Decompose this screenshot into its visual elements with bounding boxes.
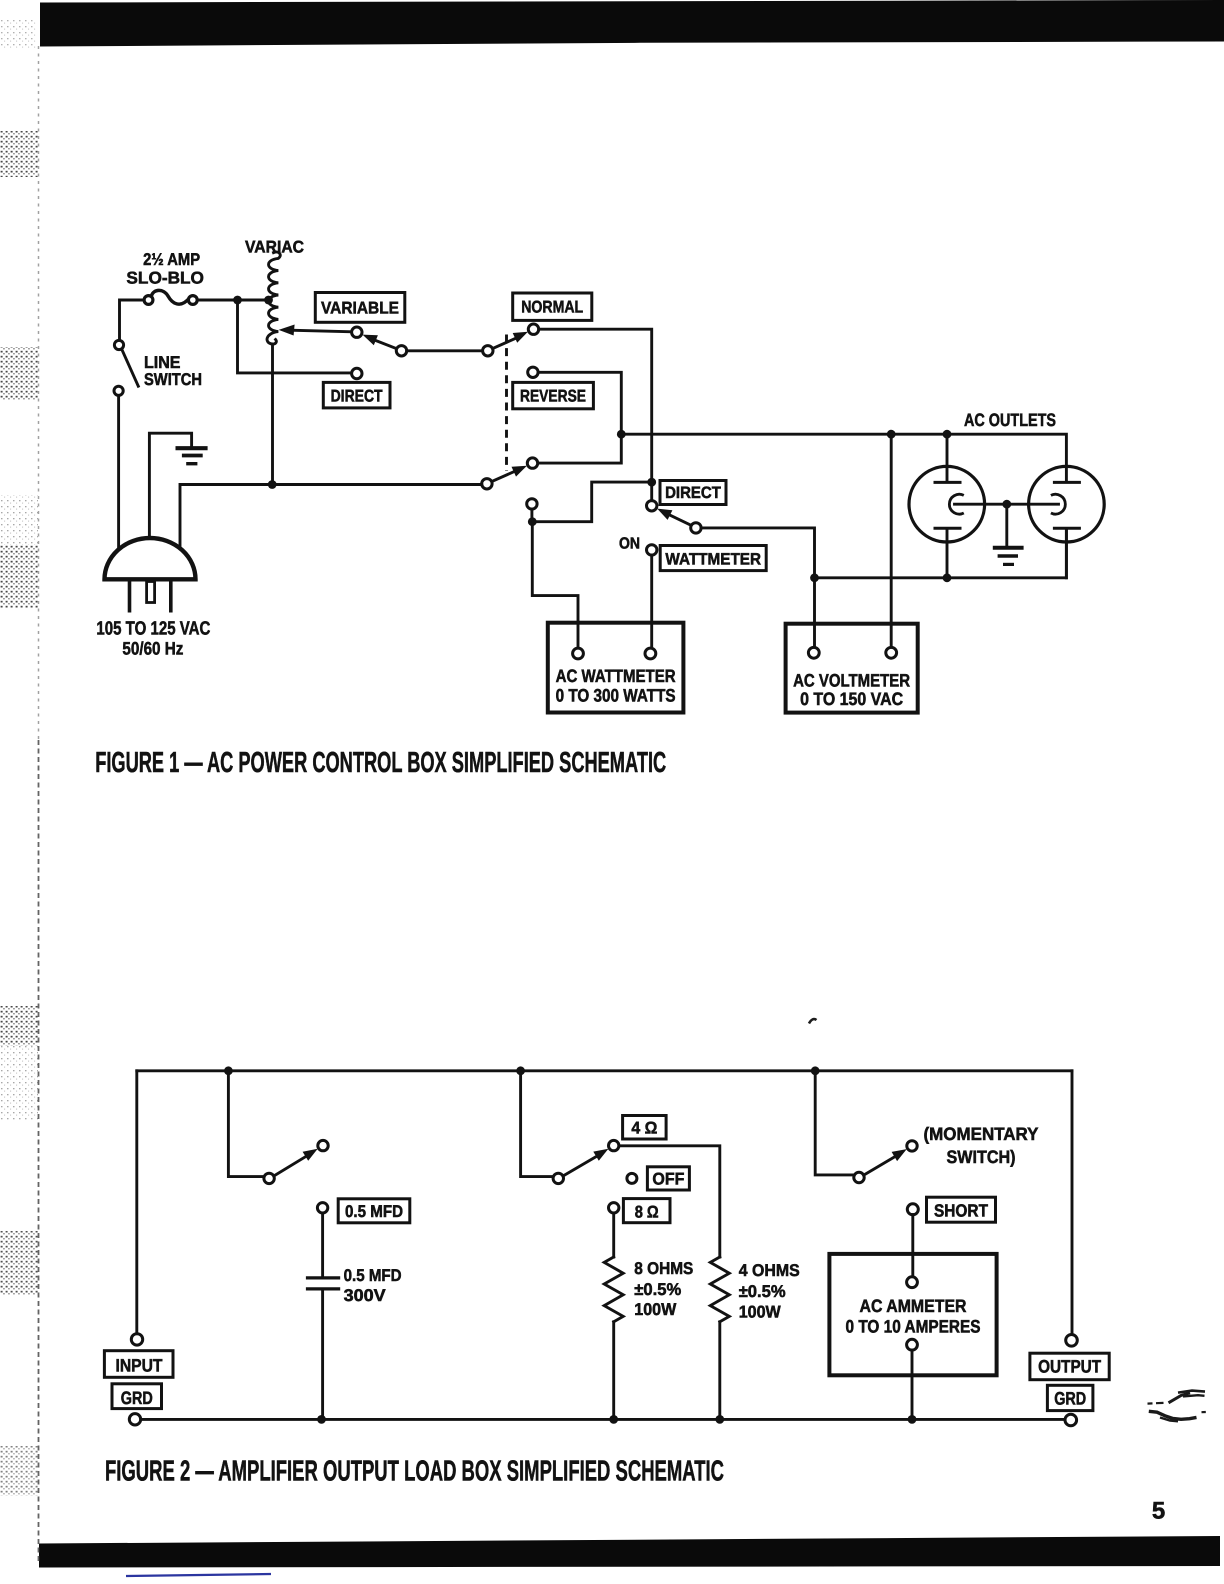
svg-text:100W: 100W: [634, 1300, 677, 1319]
svg-text:50/60 Hz: 50/60 Hz: [122, 638, 183, 658]
svg-text:INPUT: INPUT: [116, 1356, 163, 1376]
svg-text:GRD: GRD: [1054, 1389, 1086, 1409]
svg-text:OUTPUT: OUTPUT: [1038, 1357, 1101, 1377]
label 4 OHMS 0.5% 100W: [739, 1261, 800, 1322]
svg-text:4 OHMS: 4 OHMS: [739, 1261, 800, 1280]
junction dot capacitor bottom: [317, 1415, 326, 1424]
momentary contact circle: [907, 1141, 917, 1151]
svg-text:(MOMENTARY: (MOMENTARY: [924, 1124, 1039, 1144]
svg-text:100W: 100W: [739, 1303, 782, 1322]
wire: top bus: [137, 1069, 1072, 1072]
outlet J2 slot bars: [1053, 482, 1081, 528]
wire: input drop: [135, 1071, 138, 1334]
svg-text:8 OHMS: 8 OHMS: [634, 1259, 693, 1278]
junction dot outlet 1 bottom: [943, 573, 952, 582]
outlet J2 circle: [1029, 466, 1105, 542]
wire: ammeter bottom lead: [911, 1350, 914, 1419]
ON contact circle: [647, 545, 657, 555]
label box GRD left: [112, 1384, 162, 1409]
wire: variac bottom lead: [271, 345, 274, 485]
svg-text:OFF: OFF: [652, 1169, 684, 1188]
outlet J2 bottom lead: [1065, 530, 1068, 578]
AC voltmeter M2 terminals and label: [793, 647, 910, 708]
svg-text:AC WATTMETER: AC WATTMETER: [556, 666, 676, 686]
fuse F1 2.5A slo-blo: [144, 290, 197, 304]
momentary switch S4 feed wire: [815, 1071, 854, 1175]
ground symbol near plug: [176, 448, 208, 464]
switch S2 feed wire: [228, 1071, 264, 1177]
label box 4 ohm: [623, 1116, 667, 1140]
svg-text:SWITCH: SWITCH: [144, 370, 202, 389]
junction dot voltmeter tap: [887, 430, 896, 439]
lower selector pole circle: [482, 479, 492, 489]
wire: NORMAL contact down to direct node: [539, 329, 652, 477]
label box 8 ohm: [623, 1199, 670, 1223]
wire: neutral to voltmeter left terminal: [813, 578, 816, 647]
AC voltmeter M2 box outline: [786, 624, 918, 713]
junction dot switch 2 tap: [516, 1066, 525, 1075]
label box REVERSE: [513, 382, 594, 408]
AC ammeter M3 terminals and label: [846, 1277, 981, 1350]
SHORT contact circle: [907, 1204, 918, 1215]
wire: 8 ohm resistor bottom lead: [612, 1322, 615, 1420]
wire: 8 ohm resistor top lead: [612, 1213, 615, 1257]
svg-text:AC OUTLETS: AC OUTLETS: [964, 410, 1056, 430]
svg-text:FIGURE 2 — AMPLIFIER OUTPUT LO: FIGURE 2 — AMPLIFIER OUTPUT LOAD BOX SIM…: [105, 1456, 724, 1488]
svg-text:SWITCH): SWITCH): [947, 1147, 1016, 1167]
wire: ON contact to wattmeter right terminal: [650, 555, 653, 648]
stray ink tick above figure 2: [809, 1019, 817, 1023]
label box WATTMETER: [660, 546, 766, 571]
wire: capacitor bottom lead: [321, 1291, 324, 1420]
momentary switch pole circle: [854, 1172, 864, 1182]
wire: output drop: [1071, 1071, 1074, 1335]
wire: stub to outlet ground symbol: [1005, 504, 1008, 546]
svg-text:DIRECT: DIRECT: [665, 484, 721, 502]
svg-text:±0.5%: ±0.5%: [634, 1280, 681, 1299]
blue pen mark bottom left: [126, 1574, 271, 1576]
AC ammeter M3 box outline: [829, 1254, 996, 1375]
wire: outlet ground link: [955, 503, 1059, 506]
lower selector blade: [492, 469, 519, 481]
svg-text:FIGURE 1 — AC POWER CONTROL BO: FIGURE 1 — AC POWER CONTROL BOX SIMPLIFI…: [95, 747, 666, 779]
svg-text:±0.5%: ±0.5%: [739, 1282, 786, 1301]
label 8 OHMS 0.5% 100W: [634, 1259, 693, 1319]
pen scribble bottom right: [1148, 1391, 1206, 1422]
svg-text:ON: ON: [619, 536, 640, 553]
junction dot ammeter bottom: [908, 1415, 917, 1424]
svg-text:SLO-BLO: SLO-BLO: [126, 269, 204, 288]
svg-text:NORMAL: NORMAL: [521, 298, 583, 317]
svg-text:DIRECT: DIRECT: [331, 387, 384, 406]
label box GRD right: [1047, 1385, 1093, 1410]
outlet J1 bottom lead: [946, 530, 949, 578]
REVERSE contact circle: [528, 367, 538, 377]
wire: to wattmeter left terminal: [532, 522, 578, 648]
label LINE SWITCH: [144, 353, 202, 389]
svg-text:8 Ω: 8 Ω: [635, 1203, 659, 1222]
outlet J1 slot bars: [934, 482, 962, 528]
junction node A: [233, 296, 242, 305]
switch S2 blade: [274, 1155, 308, 1176]
DIRECT contact circle upper: [352, 368, 362, 378]
arrowhead at VARIABLE contact: [363, 335, 378, 346]
svg-text:105 TO 125 VAC: 105 TO 125 VAC: [96, 619, 210, 640]
wire: fuse to variac: [197, 299, 270, 302]
arrowhead at momentary contact: [892, 1149, 907, 1161]
wire: ground branch to plug: [149, 433, 191, 542]
wire: hot bus to AC outlets: [621, 434, 1066, 481]
resistor R2 4 ohms: [710, 1257, 729, 1322]
outlet J1 circle: [909, 466, 985, 542]
plug prongs: [130, 582, 171, 613]
svg-text:AC VOLTMETER: AC VOLTMETER: [793, 671, 910, 691]
AC wattmeter M1 box outline: [548, 623, 684, 713]
dashed gang line: [505, 335, 508, 472]
wire: REVERSE contact to lower contact: [538, 372, 622, 463]
variac T1 winding: [267, 252, 280, 344]
junction dot on variac top tap: [264, 296, 273, 305]
selector pole circle right: [483, 346, 493, 356]
wire: capacitor top lead: [321, 1213, 324, 1276]
junction dot neutral voltmeter tap: [810, 573, 819, 582]
svg-text:0 TO 10 AMPERES: 0 TO 10 AMPERES: [846, 1316, 981, 1336]
wire: neutral bus under outlets: [815, 530, 1067, 578]
svg-text:REVERSE: REVERSE: [520, 387, 586, 406]
junction dot ground link: [1002, 500, 1011, 509]
wattmeter selector blade: [668, 514, 691, 525]
VARIABLE contact circle: [352, 327, 362, 337]
4 ohm contact circle: [609, 1140, 619, 1150]
svg-text:WATTMETER: WATTMETER: [665, 551, 761, 569]
outlet J1 top lead: [946, 434, 949, 480]
GRD terminal circle right: [1065, 1414, 1077, 1426]
svg-text:300V: 300V: [344, 1286, 387, 1305]
junction dot 8 ohm bottom: [609, 1415, 618, 1424]
switch S3 blade: [563, 1155, 599, 1176]
DIRECT contact circle lower: [647, 501, 657, 511]
variac wiper arrowhead: [279, 325, 295, 336]
resistor R1 8 ohms: [604, 1257, 623, 1322]
wire: stub node C to DIRECT contact: [650, 482, 653, 501]
selector pole circle left: [396, 346, 406, 356]
label 2-1/2 AMP SLO-BLO: [126, 250, 204, 288]
label box INPUT: [104, 1351, 173, 1378]
wire: pole to voltmeter branch: [701, 528, 814, 578]
OFF-side contact circle: [527, 499, 537, 509]
switch S3 pole circle: [553, 1173, 563, 1183]
svg-text:GRD: GRD: [121, 1388, 153, 1408]
8 ohm contact circle: [609, 1203, 619, 1213]
svg-text:5: 5: [1152, 1498, 1165, 1525]
outlet J2 ground arc: [1051, 494, 1065, 514]
NORMAL contact circle: [528, 324, 538, 334]
junction node B on reverse wire: [617, 430, 626, 439]
wire: link between selector poles: [407, 349, 483, 352]
wire: down from node A to DIRECT contact: [238, 300, 352, 373]
arrowhead at S2 contact: [303, 1149, 318, 1161]
wattmeter selector pole circle: [691, 523, 701, 533]
INPUT terminal circle: [131, 1334, 142, 1345]
wire: SHORT contact to ammeter: [911, 1215, 914, 1277]
wire: stub from OFF-side contact: [530, 509, 533, 522]
junction dot outlet 1 tap: [943, 430, 952, 439]
svg-text:2½ AMP: 2½ AMP: [143, 250, 200, 269]
lower selector fixed contact: [527, 458, 537, 468]
svg-text:SHORT: SHORT: [934, 1201, 988, 1221]
capacitor C1 plates: [306, 1278, 340, 1289]
arrowhead at DIRECT lower contact: [657, 509, 672, 520]
ground symbol under outlets: [993, 548, 1024, 565]
momentary switch blade: [864, 1155, 897, 1175]
label box SHORT: [927, 1197, 996, 1222]
arrowhead at 4 ohm contact: [593, 1149, 608, 1161]
wire: long neutral run to plug: [180, 485, 482, 557]
page top black bar: [40, 0, 1224, 47]
wire: hot to voltmeter right terminal: [890, 434, 893, 647]
wire: jog to OFF-side contact: [538, 482, 652, 522]
selector blade to VARIABLE: [372, 339, 398, 349]
arrowhead at lower contact: [512, 466, 527, 477]
label box 0.5 MFD: [338, 1199, 410, 1223]
label box OFF: [647, 1167, 689, 1190]
OFF contact circle: [627, 1173, 637, 1183]
svg-text:VARIABLE: VARIABLE: [321, 299, 399, 318]
variac wiper arrow line: [286, 330, 352, 332]
junction dot 4 ohm bottom: [715, 1415, 724, 1424]
selector blade to NORMAL: [493, 337, 520, 349]
label box OUTPUT: [1030, 1353, 1109, 1380]
left margin scan speckle: [0, 18, 38, 1496]
junction dot momentary tap: [811, 1066, 820, 1075]
left margin fold dotted line: [38, 46, 40, 1564]
svg-text:0.5 MFD: 0.5 MFD: [344, 1266, 402, 1285]
svg-text:4 Ω: 4 Ω: [631, 1118, 657, 1137]
GRD terminal circle left: [129, 1414, 140, 1425]
label box DIRECT lower: [660, 481, 726, 505]
outlet J1 ground arc: [949, 494, 963, 514]
switch S2 pole circle: [264, 1173, 274, 1183]
switch S2 contact circle: [318, 1140, 328, 1150]
label 105 TO 125 VAC 50/60 Hz: [96, 619, 210, 659]
junction dot wattmeter left branch: [528, 517, 537, 526]
capacitor C1 top terminal circle: [317, 1203, 327, 1213]
svg-text:0 TO 150 VAC: 0 TO 150 VAC: [800, 689, 903, 709]
wire: line switch to plug: [117, 395, 120, 551]
label box NORMAL: [513, 293, 592, 320]
junction dot switch 1 tap: [224, 1066, 233, 1075]
label 0.5 MFD 300V: [344, 1266, 402, 1305]
wire: ground bus bottom: [141, 1418, 1065, 1421]
label box DIRECT upper: [323, 382, 390, 408]
switch S3 feed wire: [521, 1071, 554, 1177]
wire: left wire from fuse to line switch: [120, 300, 145, 340]
svg-text:0 TO 300 WATTS: 0 TO 300 WATTS: [556, 686, 676, 706]
wire: 4 ohm branch: [619, 1146, 720, 1257]
label box VARIABLE: [315, 293, 405, 323]
wire: 4 ohm resistor bottom lead: [718, 1322, 721, 1420]
junction node C above DIRECT contact: [647, 478, 656, 487]
AC wattmeter M1 terminals and label: [556, 648, 676, 705]
svg-text:AC AMMETER: AC AMMETER: [860, 1296, 967, 1316]
junction dot variac bottom: [268, 480, 277, 489]
OUTPUT terminal circle: [1066, 1335, 1078, 1347]
label (MOMENTARY SWITCH): [924, 1124, 1039, 1167]
svg-text:0.5 MFD: 0.5 MFD: [345, 1202, 403, 1221]
page bottom black bar: [39, 1536, 1220, 1568]
plug P1 body: [105, 538, 196, 579]
arrowhead at NORMAL contact: [513, 332, 528, 343]
line switch S1: [114, 340, 138, 395]
